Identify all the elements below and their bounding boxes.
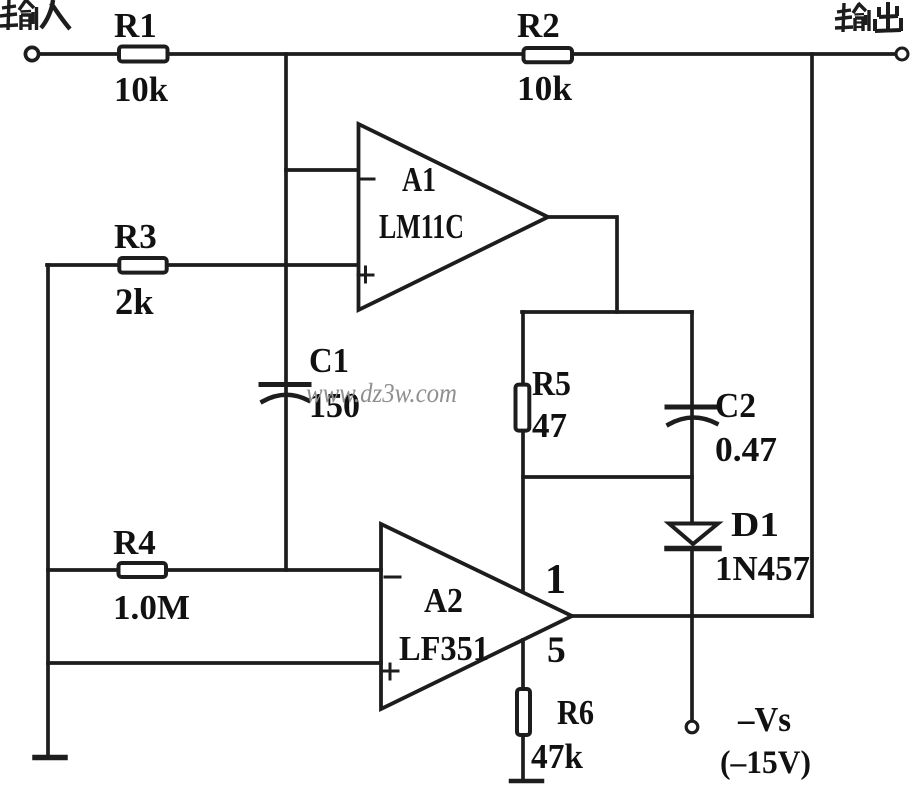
- svg-text:1N457: 1N457: [715, 549, 810, 588]
- svg-text:2k: 2k: [115, 281, 154, 322]
- svg-text:10k: 10k: [517, 69, 573, 108]
- svg-text:D1: D1: [731, 505, 779, 544]
- svg-text:R4: R4: [113, 523, 156, 562]
- wire A1 output to box top: [548, 217, 617, 312]
- wire R5 to A2 pin 1: [521, 431, 525, 592]
- node input terminal: [25, 47, 38, 60]
- svg-text:A2: A2: [424, 581, 463, 620]
- wire A1 plus input (from R3): [47, 263, 359, 267]
- svg-text:1: 1: [545, 557, 566, 603]
- wire C2 branch upper: [690, 312, 694, 523]
- svg-text:R5: R5: [532, 364, 571, 403]
- svg-text:R3: R3: [114, 217, 157, 256]
- resistor R4: [119, 563, 167, 577]
- svg-text:R2: R2: [517, 6, 560, 45]
- op-amp A1: [359, 124, 549, 310]
- wire A2 pin5 to R6: [521, 640, 525, 687]
- op-amp A2: [381, 524, 572, 709]
- svg-text:C2: C2: [715, 386, 756, 425]
- svg-text:47k: 47k: [531, 737, 584, 776]
- resistor R2: [524, 48, 573, 62]
- wire junction at x=286 down to C1: [284, 54, 288, 570]
- wire box bottom: [523, 475, 692, 479]
- svg-text:(–15V): (–15V): [720, 745, 811, 781]
- svg-text:LF351: LF351: [399, 629, 489, 668]
- svg-text:5: 5: [547, 630, 566, 671]
- wire A2 output: [572, 614, 812, 618]
- capacitor C1: [261, 385, 309, 402]
- wire top rail: [39, 52, 896, 56]
- svg-text:LM11C: LM11C: [379, 207, 464, 246]
- svg-text:C1: C1: [309, 341, 349, 380]
- resistor R1: [119, 47, 168, 62]
- wire R6 to ground: [521, 737, 525, 778]
- diode D1: [667, 524, 719, 549]
- wire A2 plus input: [48, 661, 381, 665]
- svg-text:10k: 10k: [114, 70, 169, 109]
- svg-text:1.0M: 1.0M: [113, 588, 190, 627]
- resistor R5: [516, 385, 530, 431]
- svg-text:0.47: 0.47: [715, 430, 777, 469]
- ground (left): [35, 755, 65, 761]
- ground (R6): [511, 779, 542, 784]
- wire box top: [522, 310, 692, 314]
- svg-text:www.dz3w.com: www.dz3w.com: [306, 378, 457, 408]
- label 输入: [0, 0, 70, 30]
- wire D1 to -Vs terminal: [690, 548, 694, 721]
- svg-text:R1: R1: [114, 6, 157, 45]
- wire A2 minus input (R4 line): [48, 568, 381, 572]
- label 输出: [835, 2, 901, 32]
- capacitor C2: [667, 407, 717, 425]
- resistor R3: [119, 258, 166, 273]
- svg-text:–Vs: –Vs: [737, 700, 791, 739]
- wire left vertical rail: [46, 265, 50, 757]
- node -Vs terminal: [686, 721, 698, 733]
- node output terminal: [896, 48, 908, 60]
- wire R5 branch upper: [521, 312, 525, 384]
- resistor R6: [517, 689, 530, 735]
- svg-text:A1: A1: [402, 160, 436, 199]
- wire right vertical rail: [810, 54, 814, 616]
- svg-text:47: 47: [532, 406, 567, 445]
- wire A1 minus input: [286, 168, 359, 172]
- svg-text:R6: R6: [557, 693, 594, 732]
